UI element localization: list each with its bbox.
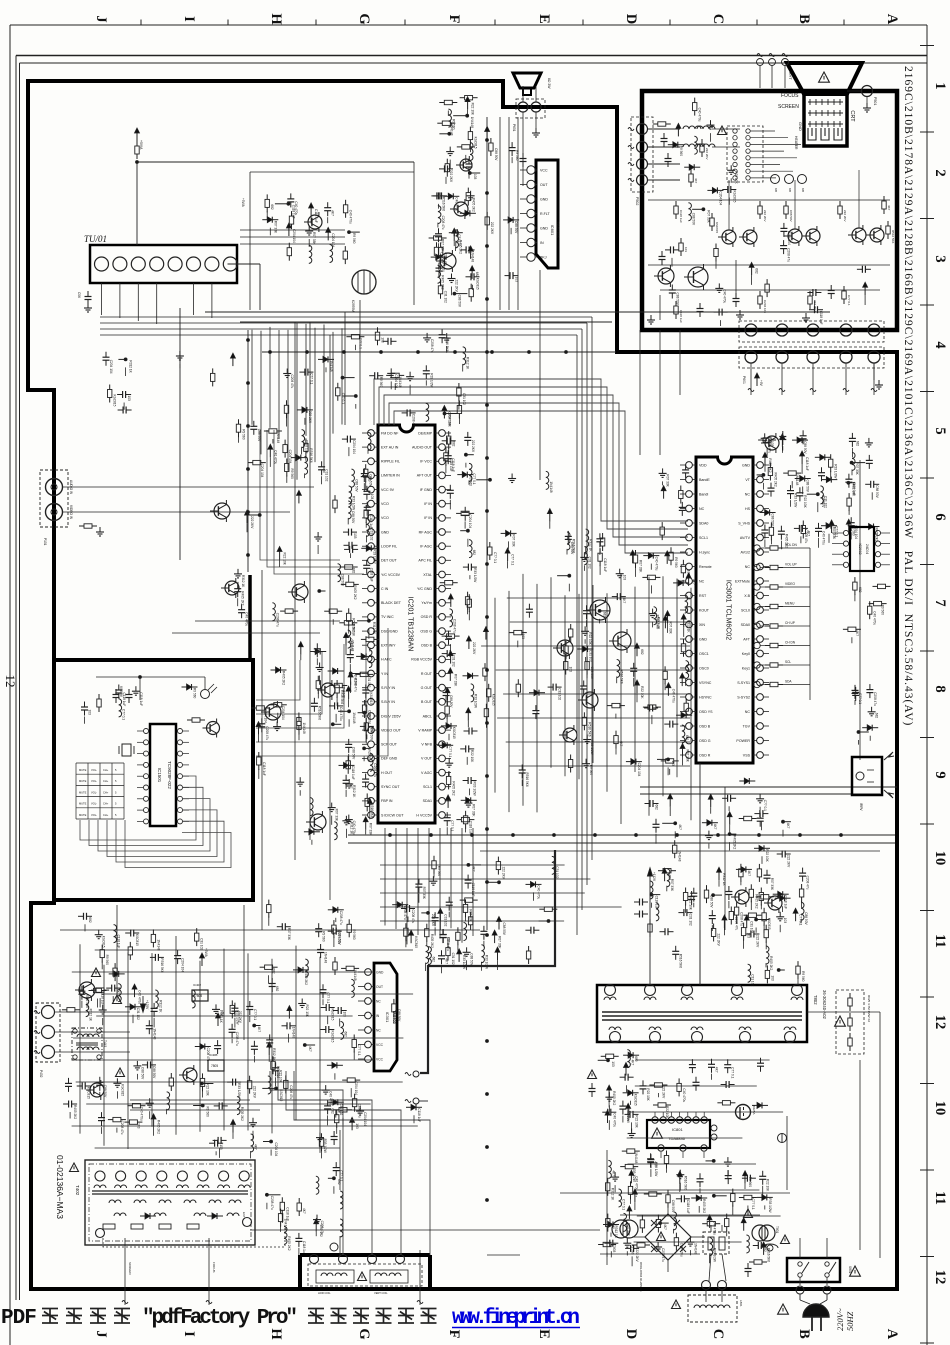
- svg-text:C204 104: C204 104: [468, 514, 472, 528]
- svg-text:11: 11: [932, 1191, 948, 1205]
- svg-text:RST: RST: [699, 594, 707, 598]
- svg-text:1N4148: 1N4148: [549, 481, 553, 492]
- svg-text:R07 33K: R07 33K: [335, 809, 339, 822]
- svg-text:R516 5K6: R516 5K6: [767, 1248, 771, 1262]
- svg-text:SCP OUT: SCP OUT: [381, 743, 398, 747]
- svg-text:4K7: 4K7: [254, 1144, 258, 1150]
- svg-text:4K7: 4K7: [747, 870, 751, 876]
- svg-text:BandE: BandE: [699, 478, 710, 482]
- svg-text:C40 470u: C40 470u: [671, 689, 675, 703]
- svg-text:AV/TV: AV/TV: [740, 536, 751, 540]
- svg-text:J: J: [93, 1330, 109, 1337]
- svg-text:C31 102: C31 102: [367, 675, 371, 687]
- svg-text:+5V/A: +5V/A: [139, 140, 143, 150]
- svg-text:R22 10K: R22 10K: [206, 1083, 210, 1096]
- svg-text:C204 104: C204 104: [181, 958, 185, 972]
- svg-text:C88 50V: C88 50V: [140, 1067, 144, 1080]
- svg-text:XTAL: XTAL: [423, 573, 432, 577]
- svg-text:1N4148: 1N4148: [678, 850, 682, 861]
- svg-text:+112V: +112V: [652, 872, 656, 882]
- svg-text:R9 560: R9 560: [352, 233, 356, 244]
- svg-text:C88 50V: C88 50V: [494, 148, 498, 161]
- svg-text:R33 1/2W: R33 1/2W: [429, 373, 433, 387]
- svg-text:HS: HS: [745, 507, 751, 511]
- svg-text:103: 103: [88, 710, 92, 716]
- svg-text:7805: 7805: [195, 994, 202, 998]
- svg-text:682: 682: [270, 204, 274, 210]
- svg-text:R9 560: R9 560: [352, 929, 356, 940]
- svg-text:R312 1K: R312 1K: [129, 360, 133, 373]
- svg-text:R312 1K: R312 1K: [272, 1048, 276, 1061]
- svg-text:P601: P601: [742, 376, 746, 384]
- svg-text:C208 47u: C208 47u: [265, 726, 269, 740]
- svg-text:C208 47u: C208 47u: [289, 1085, 293, 1099]
- svg-text:B: B: [796, 14, 812, 24]
- svg-text:682: 682: [685, 735, 689, 741]
- svg-text:OUT: OUT: [376, 985, 383, 989]
- svg-text:VERT COIL: VERT COIL: [374, 1291, 388, 1295]
- svg-text:KSC815: KSC815: [452, 727, 456, 739]
- svg-text:D801-D804 RL205 X4: D801-D804 RL205 X4: [639, 1262, 643, 1292]
- svg-text:4K7: 4K7: [630, 1060, 634, 1066]
- svg-text:C88 50V: C88 50V: [771, 514, 775, 527]
- svg-text:1N4148: 1N4148: [292, 1027, 296, 1038]
- svg-text:G OUT: G OUT: [421, 686, 433, 690]
- svg-text:SDA: SDA: [785, 680, 792, 684]
- svg-text:R516 5K6: R516 5K6: [683, 1176, 687, 1190]
- svg-text:C88 50V: C88 50V: [355, 479, 359, 492]
- svg-text:C208 47u: C208 47u: [320, 1221, 324, 1235]
- svg-text:R22 10K: R22 10K: [646, 1088, 650, 1101]
- svg-text:DIG.V 2D5V: DIG.V 2D5V: [381, 714, 401, 718]
- svg-text:682: 682: [875, 713, 879, 719]
- svg-text:C208 47u: C208 47u: [290, 375, 294, 389]
- svg-text:H.sync: H.sync: [699, 550, 710, 554]
- svg-text:C204 104: C204 104: [763, 300, 767, 313]
- svg-text:VOL-: VOL-: [91, 813, 97, 817]
- svg-text:1N4148: 1N4148: [302, 723, 306, 734]
- svg-text:E: E: [536, 14, 552, 24]
- svg-text:C40 470u: C40 470u: [634, 1176, 638, 1190]
- svg-text:R33 1/2W: R33 1/2W: [352, 496, 356, 510]
- svg-text:VIDEO: VIDEO: [785, 582, 795, 586]
- svg-text:+125V: +125V: [145, 1000, 149, 1010]
- svg-text:C118 1uF: C118 1uF: [805, 457, 809, 471]
- svg-text:103: 103: [770, 975, 774, 981]
- svg-text:5: 5: [932, 427, 948, 434]
- svg-text:EXT.IN/Y: EXT.IN/Y: [381, 644, 396, 648]
- svg-text:C204 104: C204 104: [109, 360, 113, 374]
- svg-text:220V~: 220V~: [835, 1308, 845, 1331]
- svg-text:R9 560: R9 560: [193, 688, 197, 699]
- svg-text:103: 103: [686, 570, 690, 576]
- svg-text:682: 682: [640, 649, 644, 655]
- svg-text:C88 50V: C88 50V: [875, 485, 879, 498]
- svg-text:C40 470u: C40 470u: [679, 1243, 683, 1257]
- svg-text:C208 47u: C208 47u: [453, 619, 457, 633]
- svg-text:682: 682: [431, 957, 435, 963]
- svg-text:103: 103: [684, 247, 688, 252]
- svg-text:R9 560: R9 560: [852, 525, 856, 536]
- svg-text:C77 0.1: C77 0.1: [763, 800, 767, 811]
- svg-text:T402: T402: [75, 1185, 80, 1196]
- svg-text:IF IN: IF IN: [424, 502, 432, 506]
- svg-text:R9 560: R9 560: [679, 146, 683, 157]
- svg-text:DSO/GND: DSO/GND: [381, 629, 398, 633]
- svg-text:222 2KV: 222 2KV: [501, 867, 505, 880]
- svg-text:TA8218K: TA8218K: [556, 222, 561, 239]
- svg-text:R07 33K: R07 33K: [369, 823, 373, 836]
- svg-text:1: 1: [932, 82, 948, 89]
- svg-text:AUDIO IN: AUDIO IN: [69, 480, 73, 495]
- svg-text:C40 470u: C40 470u: [713, 1221, 717, 1235]
- svg-text:SCL1: SCL1: [423, 785, 432, 789]
- svg-text:C40 470u: C40 470u: [352, 821, 356, 835]
- svg-text:C77 0.1: C77 0.1: [448, 746, 452, 757]
- svg-text:R405 2K2: R405 2K2: [304, 971, 308, 985]
- svg-text:R516 5K6: R516 5K6: [317, 706, 321, 720]
- svg-text:103: 103: [127, 396, 131, 402]
- svg-text:R516 5K6: R516 5K6: [370, 803, 374, 817]
- svg-text:222 2KV: 222 2KV: [471, 440, 475, 453]
- svg-text:KSC815: KSC815: [135, 934, 139, 946]
- svg-text:222 2KV: 222 2KV: [250, 516, 254, 529]
- svg-text:R07 33K: R07 33K: [441, 239, 445, 252]
- svg-text:B: B: [796, 1329, 812, 1339]
- svg-text:R9 560: R9 560: [468, 476, 472, 487]
- svg-text:C31 102: C31 102: [451, 953, 455, 965]
- svg-text:C31 102: C31 102: [751, 974, 755, 986]
- svg-text:C118 1uF: C118 1uF: [302, 1241, 306, 1255]
- svg-text:TV IN/C: TV IN/C: [381, 615, 394, 619]
- svg-text:682: 682: [655, 805, 659, 811]
- svg-text:C208 47u: C208 47u: [661, 1248, 665, 1262]
- svg-text:682: 682: [352, 568, 356, 574]
- svg-text:R22 10K: R22 10K: [588, 632, 592, 645]
- svg-text:J: J: [93, 15, 109, 22]
- svg-text:C31 102: C31 102: [200, 938, 204, 950]
- svg-text:SCL1: SCL1: [699, 536, 708, 540]
- svg-text:DET OUT: DET OUT: [381, 559, 398, 563]
- svg-text:1N4148: 1N4148: [693, 1243, 697, 1254]
- svg-text:C31 102: C31 102: [589, 650, 593, 662]
- svg-text:8Ω 3W: 8Ω 3W: [547, 78, 551, 89]
- svg-text:24C04: 24C04: [865, 544, 869, 554]
- svg-text:VCC: VCC: [376, 1057, 384, 1061]
- svg-text:Key1: Key1: [742, 666, 750, 670]
- svg-text:4: 4: [932, 341, 948, 348]
- svg-text:T803: T803: [612, 1245, 616, 1252]
- svg-text:222 2KV: 222 2KV: [455, 280, 459, 293]
- svg-text:C40 470u: C40 470u: [294, 201, 298, 215]
- svg-text:C204 104: C204 104: [288, 450, 292, 464]
- svg-text:VOL UP: VOL UP: [785, 563, 797, 567]
- svg-text:C77 0.1: C77 0.1: [835, 526, 839, 537]
- svg-text:S_VHS: S_VHS: [738, 521, 750, 525]
- svg-text:4K7: 4K7: [622, 598, 626, 604]
- svg-text:C208 47u: C208 47u: [339, 911, 343, 925]
- svg-text:KB: KB: [788, 188, 792, 192]
- svg-text:OSD G: OSD G: [699, 739, 711, 743]
- svg-text:C40 470u: C40 470u: [873, 611, 877, 625]
- svg-text:MUTE: MUTE: [79, 802, 87, 806]
- svg-text:222 2KV: 222 2KV: [238, 1011, 242, 1024]
- svg-text:C88 50V: C88 50V: [338, 932, 342, 945]
- svg-text:NC: NC: [376, 999, 381, 1003]
- svg-text:C88 50V: C88 50V: [691, 213, 695, 226]
- svg-text:R33 1/2W: R33 1/2W: [372, 549, 376, 563]
- svg-text:C77 0.1: C77 0.1: [511, 554, 515, 565]
- svg-text:SCREEN: SCREEN: [128, 1262, 132, 1275]
- svg-text:V OUT: V OUT: [421, 757, 433, 761]
- svg-text:C88 50V: C88 50V: [397, 1009, 401, 1022]
- svg-text:FOCUS: FOCUS: [212, 1262, 216, 1273]
- svg-text:103: 103: [381, 337, 385, 343]
- svg-text:H VCC5V: H VCC5V: [416, 813, 432, 817]
- svg-text:VSYNC: VSYNC: [699, 681, 712, 685]
- svg-text:12: 12: [932, 1270, 948, 1285]
- svg-text:C118 1uF: C118 1uF: [686, 1200, 690, 1214]
- svg-text:VIDEO OUT: VIDEO OUT: [381, 728, 402, 732]
- svg-text:R9 560: R9 560: [242, 429, 246, 440]
- svg-text:C40 470u: C40 470u: [138, 990, 142, 1004]
- svg-text:IC301: IC301: [385, 1012, 390, 1023]
- svg-text:C: C: [710, 14, 726, 24]
- svg-text:C204 104: C204 104: [352, 440, 356, 454]
- svg-text:EXT AU IN: EXT AU IN: [381, 445, 399, 449]
- svg-text:C77 0.1: C77 0.1: [357, 1045, 361, 1056]
- svg-text:C77 0.1: C77 0.1: [847, 295, 851, 306]
- svg-text:OSD B: OSD B: [421, 644, 433, 648]
- svg-text:C31 102: C31 102: [136, 1008, 140, 1020]
- svg-text:103: 103: [671, 760, 675, 766]
- svg-text:C208 47u: C208 47u: [787, 248, 791, 262]
- svg-text:1N4148: 1N4148: [324, 952, 328, 963]
- svg-text:VOL-: VOL-: [91, 802, 97, 806]
- svg-text:C88 50V: C88 50V: [352, 747, 356, 760]
- svg-text:1N4148: 1N4148: [329, 360, 333, 371]
- svg-text:GND: GND: [540, 226, 548, 230]
- svg-text:1N4148: 1N4148: [449, 124, 453, 135]
- svg-text:R OUT: R OUT: [421, 672, 433, 676]
- svg-text:R516 5K6: R516 5K6: [525, 773, 529, 787]
- svg-text:P101: P101: [43, 538, 47, 546]
- svg-text:F: F: [446, 15, 462, 24]
- svg-text:4K7: 4K7: [692, 579, 696, 585]
- svg-text:NC: NC: [376, 1028, 381, 1032]
- svg-text:SDA0: SDA0: [699, 521, 708, 525]
- svg-text:AFT OUT: AFT OUT: [417, 474, 433, 478]
- svg-text:R9 560: R9 560: [881, 605, 885, 616]
- svg-text:C88 50V: C88 50V: [257, 429, 261, 442]
- svg-text:R405 2K2: R405 2K2: [733, 835, 737, 849]
- svg-text:7805: 7805: [211, 1064, 218, 1068]
- svg-text:682: 682: [331, 1108, 335, 1114]
- svg-text:C40 470u: C40 470u: [537, 885, 541, 899]
- svg-text:POWER: POWER: [736, 739, 750, 743]
- svg-text:R07 33K: R07 33K: [453, 674, 457, 687]
- svg-text:1N4148: 1N4148: [634, 1152, 638, 1163]
- svg-text:OSD R: OSD R: [699, 753, 711, 757]
- svg-text:C204 104: C204 104: [718, 191, 722, 205]
- svg-text:IF IN: IF IN: [424, 516, 432, 520]
- svg-text:R07 33K: R07 33K: [639, 560, 643, 573]
- svg-text:Ys/Ym: Ys/Ym: [421, 601, 432, 605]
- svg-text:222 2KV: 222 2KV: [763, 210, 767, 222]
- svg-text:50HZ: 50HZ: [845, 1311, 855, 1331]
- svg-text:P402: P402: [39, 1070, 43, 1078]
- svg-text:103: 103: [611, 1061, 615, 1067]
- svg-text:1N4148: 1N4148: [471, 251, 475, 262]
- svg-text:C208 47u: C208 47u: [430, 339, 434, 353]
- svg-text:C31 102: C31 102: [452, 655, 456, 667]
- svg-text:SCREEN: SCREEN: [778, 104, 799, 110]
- svg-text:H AFC: H AFC: [381, 658, 392, 662]
- svg-text:1N4148: 1N4148: [354, 675, 358, 686]
- svg-text:GND: GND: [540, 197, 548, 201]
- svg-text:R405 2K2: R405 2K2: [612, 1091, 616, 1105]
- svg-text:4K7: 4K7: [713, 824, 717, 830]
- svg-text:R33 1/2W: R33 1/2W: [237, 1083, 241, 1097]
- svg-text:X.B: X.B: [744, 594, 750, 598]
- svg-text:SDA0: SDA0: [741, 623, 750, 627]
- svg-text:C204 104: C204 104: [281, 706, 285, 720]
- svg-text:7: 7: [932, 599, 948, 606]
- svg-text:OUT: OUT: [540, 183, 548, 187]
- svg-text:B OUT: B OUT: [421, 700, 433, 704]
- svg-text:K2955M: K2955M: [351, 300, 355, 312]
- svg-text:C40 470u: C40 470u: [329, 1091, 333, 1105]
- svg-text:R9 560: R9 560: [379, 377, 383, 388]
- svg-text:222 2KV: 222 2KV: [843, 210, 847, 222]
- svg-text:KB: KB: [774, 188, 778, 192]
- svg-text:R405 2K2: R405 2K2: [452, 781, 456, 795]
- svg-text:36-306240-A02: 36-306240-A02: [822, 990, 827, 1020]
- svg-text:R33 1/2W: R33 1/2W: [590, 741, 594, 755]
- svg-text:I: I: [181, 1331, 197, 1337]
- svg-text:C88 50V: C88 50V: [514, 221, 518, 234]
- svg-text:R22 10K: R22 10K: [766, 1179, 770, 1192]
- svg-text:R405 2K2: R405 2K2: [471, 198, 475, 212]
- svg-text:R07 33K: R07 33K: [471, 804, 475, 817]
- svg-text:KSC815: KSC815: [476, 278, 480, 290]
- svg-text:R405 2K2: R405 2K2: [773, 473, 777, 487]
- svg-text:IF AGC: IF AGC: [420, 545, 432, 549]
- svg-text:R9 560: R9 560: [674, 557, 678, 568]
- svg-text:C88 50V: C88 50V: [804, 912, 808, 925]
- svg-text:R405 2K2: R405 2K2: [441, 275, 445, 289]
- svg-text:1N4148: 1N4148: [795, 474, 799, 485]
- svg-text:103: 103: [747, 933, 751, 939]
- svg-text:222 2KV: 222 2KV: [755, 935, 759, 948]
- svg-text:C118 1uF: C118 1uF: [351, 766, 355, 780]
- svg-text:9: 9: [932, 771, 948, 778]
- svg-text:IC801: IC801: [672, 1127, 683, 1132]
- svg-text:R516 5K6: R516 5K6: [160, 958, 164, 972]
- svg-text:Remote: Remote: [699, 565, 712, 569]
- svg-text:C118 1uF: C118 1uF: [370, 568, 374, 582]
- svg-text:R312 1K: R312 1K: [89, 1009, 93, 1022]
- svg-text:R07 33K: R07 33K: [448, 415, 452, 428]
- svg-text:2: 2: [932, 169, 948, 176]
- svg-text:IC3001 TCLM6C02: IC3001 TCLM6C02: [725, 580, 732, 640]
- svg-text:103: 103: [623, 575, 627, 581]
- svg-text:MENU: MENU: [785, 602, 795, 606]
- svg-text:C88 50V: C88 50V: [341, 574, 345, 587]
- svg-text:C118 1uF: C118 1uF: [139, 692, 143, 706]
- svg-text:R312 1K: R312 1K: [589, 539, 593, 552]
- svg-text:682: 682: [858, 587, 862, 593]
- svg-text:C40 470u: C40 470u: [822, 531, 826, 545]
- svg-text:BLACK DET: BLACK DET: [381, 601, 402, 605]
- svg-text:FOCUS: FOCUS: [781, 93, 799, 99]
- svg-text:A: A: [884, 14, 900, 25]
- svg-text:VOL DN: VOL DN: [785, 543, 797, 547]
- svg-text:682: 682: [472, 550, 476, 556]
- svg-text:4K7: 4K7: [257, 1027, 261, 1033]
- svg-text:4K7: 4K7: [887, 205, 891, 211]
- svg-text:R9 560: R9 560: [801, 971, 805, 982]
- svg-text:OSD B: OSD B: [699, 724, 711, 728]
- svg-text:CH+: CH+: [103, 802, 109, 806]
- svg-text:R405 2K2: R405 2K2: [157, 1120, 161, 1134]
- svg-text:1N4148: 1N4148: [341, 687, 345, 698]
- svg-text:AFT: AFT: [743, 637, 751, 641]
- svg-text:OSC1: OSC1: [699, 652, 709, 656]
- svg-text:R07 33K: R07 33K: [512, 534, 516, 547]
- svg-text:C31 102: C31 102: [444, 291, 448, 303]
- svg-text:HOR COIL: HOR COIL: [318, 1291, 331, 1295]
- svg-text:KB: KB: [801, 188, 805, 192]
- svg-text:S ID/CW OUT: S ID/CW OUT: [381, 813, 404, 817]
- svg-text:222 2KV: 222 2KV: [705, 148, 709, 160]
- svg-text:222 2KV: 222 2KV: [472, 642, 476, 655]
- svg-text:R516 5K6: R516 5K6: [679, 954, 683, 968]
- svg-text:R405 2K2: R405 2K2: [287, 1236, 291, 1250]
- svg-text:4K7: 4K7: [302, 1208, 306, 1214]
- svg-text:C77 0.1: C77 0.1: [731, 1067, 735, 1078]
- svg-text:12: 12: [3, 675, 18, 688]
- svg-text:4K7: 4K7: [663, 1224, 667, 1230]
- svg-text:VOL-: VOL-: [91, 790, 97, 794]
- svg-text:BandI: BandI: [699, 492, 708, 496]
- svg-text:C118 1uF: C118 1uF: [262, 762, 266, 776]
- svg-text:C77 0.1: C77 0.1: [799, 914, 803, 925]
- svg-text:RF AGC: RF AGC: [419, 530, 433, 534]
- svg-text:C31 102: C31 102: [462, 393, 466, 405]
- svg-text:NC: NC: [699, 579, 705, 583]
- svg-text:MUTE: MUTE: [79, 779, 87, 783]
- svg-text:www.fineprint.cn: www.fineprint.cn: [452, 1307, 580, 1330]
- svg-text:C88 50V: C88 50V: [710, 895, 714, 908]
- svg-text:"pdfFactory Pro": "pdfFactory Pro": [142, 1307, 298, 1330]
- svg-text:C208 47u: C208 47u: [120, 1121, 124, 1135]
- svg-text:R312 1K: R312 1K: [611, 1188, 615, 1201]
- svg-text:C77 0.1: C77 0.1: [440, 252, 444, 263]
- svg-text:PDF: PDF: [1, 1307, 36, 1330]
- svg-text:C40 470u: C40 470u: [273, 450, 277, 464]
- svg-text:4K7: 4K7: [715, 1067, 719, 1073]
- svg-text:222 2KV: 222 2KV: [717, 934, 721, 947]
- svg-text:R405 2K2: R405 2K2: [282, 671, 286, 685]
- svg-text:OSD R: OSD R: [421, 615, 433, 619]
- svg-text:222 2KV: 222 2KV: [821, 495, 825, 508]
- svg-text:CH UP: CH UP: [785, 621, 795, 625]
- svg-text:C: C: [710, 1329, 726, 1339]
- svg-text:OSD G: OSD G: [420, 629, 432, 633]
- svg-text:C118 1uF: C118 1uF: [603, 558, 607, 572]
- svg-text:C208 47u: C208 47u: [768, 439, 772, 453]
